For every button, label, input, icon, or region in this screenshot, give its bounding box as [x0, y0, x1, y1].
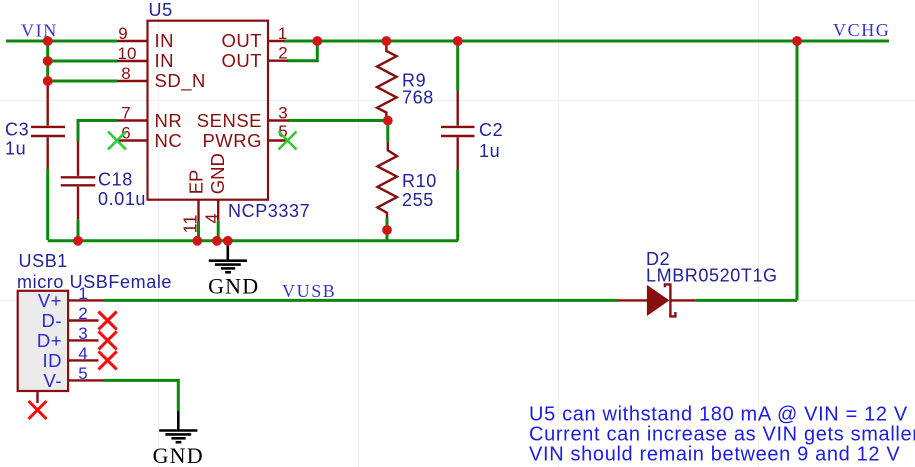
svg-text:10: 10: [118, 44, 137, 63]
svg-text:SD_N: SD_N: [155, 70, 206, 92]
pin 9 name IN: [155, 30, 175, 51]
svg-text:11: 11: [181, 215, 201, 234]
wire SENSE: [289, 119, 388, 122]
svg-text:4: 4: [78, 344, 87, 363]
pin 7 name NR: [155, 110, 183, 131]
diode D2 schottky cathode bar: [665, 284, 676, 316]
svg-text:IN: IN: [155, 30, 175, 51]
pin 7 NR stub: [117, 119, 148, 121]
junction dot VIN pin9: [43, 36, 53, 46]
svg-text:GND: GND: [207, 153, 228, 194]
R10 reference label: [402, 171, 437, 191]
USB1 pin 4 ID stub: [68, 359, 98, 361]
svg-text:0.01u: 0.01u: [98, 189, 146, 209]
svg-text:IN: IN: [155, 50, 175, 71]
junction dot pin2 out: [312, 36, 322, 46]
pin 1 OUT stub: [268, 40, 285, 42]
svg-text:OUT: OUT: [221, 50, 262, 71]
svg-text:NR: NR: [155, 110, 183, 131]
svg-text:5: 5: [78, 364, 87, 383]
GND1 label: [208, 274, 259, 299]
R10 value 255: [402, 190, 434, 210]
pin 5 PWRG stub: [268, 139, 288, 141]
diode D2 cathode lead: [670, 299, 695, 301]
junction dot VCHG: [792, 36, 802, 46]
D2 reference label: [646, 249, 670, 269]
USB1 pin 2 name D-: [41, 310, 62, 331]
pin 11 number: [181, 215, 201, 234]
C2 reference label: [479, 120, 503, 140]
svg-text:7: 7: [121, 104, 130, 123]
pin 4 GND stub: [217, 200, 219, 221]
svg-text:2: 2: [278, 44, 287, 63]
pin 6 number: [121, 124, 130, 143]
junction dot R9 top: [382, 36, 392, 46]
wire pin10: [48, 60, 117, 63]
junction dot C2 top: [453, 36, 463, 46]
svg-text:GND: GND: [153, 443, 204, 467]
USB1 pin 3 D+ stub: [68, 339, 98, 341]
USB1 pin 1 V+ stub: [68, 299, 104, 301]
C2 value 1u: [479, 141, 500, 161]
svg-text:U5: U5: [149, 0, 173, 20]
svg-text:PWRG: PWRG: [202, 130, 262, 151]
svg-text:R10: R10: [402, 171, 437, 191]
pin 5 number: [278, 122, 287, 141]
R9 reference label: [402, 71, 426, 91]
pin 2 OUT stub: [268, 60, 288, 62]
pin 4 name GND: [207, 153, 228, 194]
pin 6 name NC: [155, 130, 183, 151]
no-connect X USB shield: [29, 401, 47, 419]
USB1 pin 5 number: [78, 364, 87, 383]
svg-text:768: 768: [402, 88, 434, 108]
junction dot VIN pin8: [43, 76, 53, 86]
connector USB1 body: [18, 291, 68, 391]
svg-text:SENSE: SENSE: [197, 110, 262, 131]
pin 2 number: [278, 44, 287, 63]
C18 reference label: [98, 170, 133, 190]
pin 8 SD_N stub: [117, 80, 148, 82]
svg-text:NC: NC: [155, 130, 183, 151]
no-connect X USB pin 4: [99, 351, 117, 369]
no-connect X pin 6: [108, 132, 126, 150]
pin 9 number: [118, 24, 127, 43]
svg-text:LMBR0520T1G: LMBR0520T1G: [646, 266, 778, 286]
svg-text:C2: C2: [479, 120, 503, 140]
diode D2 triangle: [647, 286, 668, 315]
pin 3 SENSE stub: [268, 119, 289, 121]
wire pin2 to pin1: [287, 41, 317, 61]
pin 11 name EP: [186, 170, 207, 195]
junction dot R10 bottom: [382, 225, 392, 235]
resistor R10: [377, 142, 397, 218]
svg-text:GND: GND: [208, 274, 259, 299]
ground symbol GND2: [159, 411, 197, 442]
capacitor C18: [61, 141, 96, 220]
svg-text:3: 3: [278, 104, 287, 123]
pin 7 number: [121, 104, 130, 123]
D2 value LMBR0520T1G: [646, 266, 778, 286]
USB1 pin 1 name V+: [38, 290, 62, 311]
svg-text:9: 9: [118, 24, 127, 43]
ground symbol GND1: [209, 241, 247, 272]
wire ground rail: [48, 239, 458, 242]
junction dot pin4 rail: [212, 236, 222, 246]
no-connect X USB pin 3: [99, 331, 117, 349]
svg-text:4: 4: [202, 213, 222, 223]
wire pin8: [48, 80, 117, 83]
svg-text:255: 255: [402, 190, 434, 210]
junction dot GND1 stem: [223, 236, 233, 246]
svg-text:1u: 1u: [479, 141, 500, 161]
USB1 reference label: [19, 251, 68, 271]
pin 3 number: [278, 104, 287, 123]
wire diode cathode to corner: [696, 299, 797, 302]
USB1 shield stub: [36, 391, 38, 403]
wire C2 bottom: [456, 169, 459, 241]
C3 value 1u: [5, 139, 26, 159]
USB1 pin 5 V- stub: [68, 379, 104, 381]
wire VCHG vertical: [796, 41, 799, 300]
junction dot EP rail: [192, 236, 202, 246]
pin 11 EP stub: [197, 200, 199, 221]
pin 3 name SENSE: [197, 110, 262, 131]
USB1 pin 3 number: [78, 324, 87, 343]
resistor R9: [377, 41, 397, 121]
USB1 pin 3 name D+: [37, 330, 62, 351]
C18 value 0.01u: [98, 189, 146, 209]
svg-text:V-: V-: [44, 370, 62, 391]
svg-text:1u: 1u: [5, 139, 26, 159]
wire NR to C18: [78, 121, 117, 142]
pin 9 IN stub: [117, 40, 148, 42]
junction dot SENSE R9 R10: [383, 116, 393, 126]
wire top rail OUT to VCHG: [284, 40, 889, 43]
USB1 pin 4 number: [78, 344, 87, 363]
svg-text:V+: V+: [38, 290, 62, 311]
svg-text:OUT: OUT: [221, 30, 262, 51]
wire C2 top: [456, 41, 459, 91]
USB1 pin 5 name V-: [44, 370, 62, 391]
svg-text:USB1: USB1: [19, 251, 68, 271]
svg-text:NCP3337: NCP3337: [228, 201, 310, 221]
svg-text:VUSB: VUSB: [282, 281, 336, 301]
no-connect X pin 5: [279, 132, 297, 150]
svg-text:VCHG: VCHG: [833, 20, 890, 40]
pin 6 NC stub: [117, 139, 148, 141]
U5 value NCP3337: [228, 201, 310, 221]
wire VIN vertical: [46, 41, 49, 84]
USB1 value micro USBFemale: [17, 272, 172, 292]
svg-text:1: 1: [278, 24, 287, 43]
svg-text:D-: D-: [41, 310, 62, 331]
pin 2 name OUT: [221, 50, 262, 71]
no-connect X USB pin 2: [99, 312, 117, 330]
op-amp U5 body: [148, 21, 269, 200]
wire R10 top: [386, 121, 389, 142]
svg-text:2: 2: [78, 304, 87, 323]
wire EP pin lower: [197, 221, 200, 241]
wire R10 bottom: [386, 218, 389, 241]
net label VIN: [21, 21, 58, 41]
pin 1 number: [278, 24, 287, 43]
pin 5 name PWRG: [202, 130, 262, 151]
U5 reference label: [149, 0, 173, 20]
GND2 label: [153, 443, 204, 467]
svg-text:ID: ID: [43, 350, 63, 371]
svg-text:D+: D+: [37, 330, 62, 351]
wire C18 bottom: [77, 220, 80, 241]
svg-text:C18: C18: [98, 170, 133, 190]
wire C3 bottom: [46, 169, 49, 240]
wire USB V- to GND: [104, 380, 178, 411]
svg-text:EP: EP: [186, 170, 207, 195]
pin 4 number: [202, 213, 222, 223]
USB1 pin 2 D- stub: [68, 319, 98, 321]
note text line 1: [529, 404, 908, 426]
net label VCHG: [833, 20, 890, 40]
pin 8 name SD_N: [155, 70, 206, 92]
junction dot C18 rail: [73, 236, 83, 246]
pin 1 name OUT: [221, 30, 262, 51]
svg-text:C3: C3: [5, 120, 29, 140]
note text line 2: [529, 424, 915, 446]
svg-text:U5 can withstand 180 mA @ VIN: U5 can withstand 180 mA @ VIN = 12 V: [529, 404, 908, 426]
diode D2 anode lead: [618, 299, 648, 301]
svg-text:8: 8: [121, 64, 130, 83]
USB1 pin 2 number: [78, 304, 87, 323]
svg-text:VIN should remain between 9 an: VIN should remain between 9 and 12 V: [529, 444, 900, 466]
pin 10 number: [118, 44, 137, 63]
svg-text:3: 3: [78, 324, 87, 343]
net label VUSB: [282, 281, 336, 301]
svg-text:VIN: VIN: [21, 21, 58, 41]
R9 value 768: [402, 88, 434, 108]
svg-text:1: 1: [78, 284, 87, 303]
pin 10 name IN: [155, 50, 175, 71]
wire VIN top rail left: [6, 40, 117, 43]
pin 8 number: [121, 64, 130, 83]
capacitor C3: [31, 84, 65, 169]
capacitor C2: [441, 91, 475, 169]
note text line 3: [529, 444, 900, 466]
USB1 pin 4 name ID: [43, 350, 63, 371]
wire GND pin lower: [217, 221, 220, 241]
pin 10 IN stub: [117, 60, 148, 62]
wire VUSB: [104, 299, 618, 302]
C3 reference label: [5, 120, 29, 140]
svg-text:Current can increase as VIN ge: Current can increase as VIN gets smaller: [529, 424, 915, 446]
USB1 pin 1 number: [78, 284, 87, 303]
junction dot VIN pin10: [43, 56, 53, 66]
